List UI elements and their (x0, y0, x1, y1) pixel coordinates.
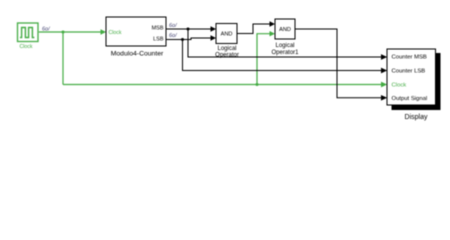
svg-text:Operator: Operator (215, 53, 239, 59)
annotation 6o/ (MSB signal) (169, 23, 177, 29)
block label Modulo4-Counter (111, 50, 164, 57)
svg-text:Logical: Logical (275, 43, 294, 49)
port label Clock (green) (392, 82, 407, 88)
AND text U2 (279, 27, 291, 33)
wire clock branch bottom horizontal to Display (green) (63, 82, 387, 87)
port label Counter LSB (392, 68, 426, 74)
svg-text:Counter MSB: Counter MSB (392, 55, 427, 61)
wire MSB to Logical Operator input 1 (166, 26, 216, 31)
junction clock net branch to Logical Operator1 (256, 83, 259, 86)
block Modulo4-Counter (106, 17, 166, 46)
svg-text:6o/: 6o/ (169, 23, 177, 29)
svg-text:Operator1: Operator1 (271, 50, 299, 56)
svg-text:MSB: MSB (152, 26, 164, 32)
svg-text:Counter LSB: Counter LSB (392, 68, 426, 74)
Display block drop shadow (392, 53, 441, 110)
input port arrow 1 (381, 54, 387, 59)
input port arrow 4 (381, 95, 387, 100)
svg-text:AND: AND (279, 27, 291, 33)
svg-text:6o/: 6o/ (169, 33, 177, 39)
junction LSB branch (181, 38, 184, 41)
svg-text:Clock: Clock (20, 44, 33, 50)
block label Display (405, 114, 428, 121)
wire LSB to Logical Operator input 2 (166, 35, 216, 40)
wire Logical Operator1 output to Display Output Signal (295, 29, 387, 101)
op block U1 Logical Operator (AND) (216, 24, 237, 44)
annotation 6o/ (clock signal) (42, 27, 50, 33)
wire LSB branch to Display Counter LSB (183, 40, 388, 74)
wire clock branch up to Logical Operator1 (green) (257, 31, 275, 85)
block Display (scope) (387, 49, 436, 105)
svg-text:Display: Display (405, 114, 428, 121)
annotation 6o/ (LSB signal) (169, 33, 177, 39)
svg-text:AND: AND (221, 32, 233, 38)
input port arrow 3 (green) (381, 82, 387, 87)
label Clock (20, 44, 33, 50)
block label Logical Operator1 (271, 43, 299, 56)
port label Output Signal (392, 96, 428, 102)
junction MSB branch (187, 28, 190, 31)
wire Logical Operator output to Logical Operator1 input 1 (237, 21, 275, 33)
port label Counter MSB (392, 55, 427, 61)
svg-text:Clock: Clock (109, 30, 122, 36)
wire clock output to Modulo4-Counter input (green) (39, 29, 106, 34)
svg-text:6o/: 6o/ (42, 27, 50, 33)
clock waveform icon (20, 28, 34, 38)
AND text U1 (221, 32, 233, 38)
op block U2 Logical Operator1 (AND) (275, 19, 295, 39)
wire MSB branch to Display Counter MSB (188, 29, 387, 60)
port label Clock (input, green) (109, 30, 122, 36)
svg-text:LSB: LSB (153, 37, 164, 43)
svg-text:Clock: Clock (392, 82, 407, 88)
port label MSB (152, 26, 164, 32)
svg-text:Modulo4-Counter: Modulo4-Counter (111, 50, 164, 57)
port label LSB (153, 37, 164, 43)
block label Logical Operator (215, 46, 239, 59)
wire clock branch down (green) (62, 32, 64, 85)
svg-text:Logical: Logical (217, 46, 236, 52)
clock block Clock (18, 23, 39, 42)
junction clock net branch (62, 31, 65, 34)
svg-text:Output Signal: Output Signal (392, 96, 428, 102)
input port arrow 2 (381, 68, 387, 73)
